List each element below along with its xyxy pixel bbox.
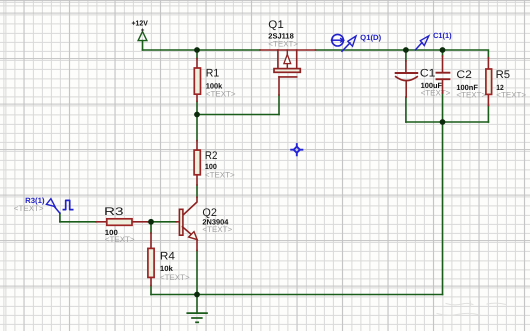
node R3/R4/base (148, 219, 154, 225)
svg-text:10k: 10k (160, 264, 174, 273)
svg-text:<TEXT>: <TEXT> (160, 273, 190, 282)
wire +12V rail (143, 49, 261, 51)
wire emitter to rail (196, 251, 198, 295)
wire R4 bottom stub (150, 286, 152, 295)
wire R5 bottom stub (487, 105, 489, 122)
transistor Q2 (2N3904 NPN) (176, 197, 197, 250)
node emitter/ground (194, 292, 200, 298)
wire R1-R2 vertical (196, 115, 198, 141)
svg-text:Q1(D): Q1(D) (360, 33, 381, 42)
capacitor C2 (437, 56, 450, 93)
svg-text:<TEXT>: <TEXT> (206, 90, 236, 99)
wire C2 bottom stub (442, 93, 444, 122)
wire R1 bottom stub (196, 101, 198, 114)
power +12V symbol (138, 29, 147, 50)
wire ground rail (151, 294, 443, 296)
svg-text:C2: C2 (456, 69, 472, 81)
ground (187, 313, 207, 322)
svg-text:R1: R1 (206, 68, 220, 80)
generator pulse symbol (63, 200, 72, 209)
wire capacitor bottom rail (406, 121, 489, 123)
svg-text:R5: R5 (496, 69, 511, 81)
svg-text:R4: R4 (160, 251, 175, 263)
svg-text:R3: R3 (104, 206, 124, 218)
resistor R4 (148, 233, 154, 286)
wire R2-Q2 collector (196, 185, 198, 197)
node drain/C1 (403, 47, 409, 53)
wire right down to ground rail (442, 122, 444, 295)
svg-text:Q1: Q1 (268, 19, 284, 31)
svg-text:<TEXT>: <TEXT> (456, 91, 486, 100)
wire input to R3 (60, 221, 96, 223)
wire gate net horizontal (197, 114, 279, 116)
wire R4 top stub (150, 222, 152, 233)
node +12V/R1 (194, 47, 200, 53)
svg-text:<TEXT>: <TEXT> (205, 170, 235, 179)
resistor R2 (194, 141, 200, 185)
svg-text:+12V: +12V (132, 19, 148, 28)
svg-text:<TEXT>: <TEXT> (421, 88, 451, 97)
origin marker (291, 144, 302, 155)
wire gate net vertical (278, 95, 280, 115)
resistor R3 (96, 219, 148, 226)
capacitor C1 (396, 61, 418, 97)
wire C2 top stub (442, 50, 444, 56)
voltage probe R3(1) (46, 199, 60, 214)
wire input vertical (59, 213, 61, 222)
wire C1 bottom stub (405, 97, 407, 122)
resistor R1 (194, 59, 200, 102)
resistor R5 (486, 58, 492, 106)
voltage probe C1(1) (415, 36, 429, 50)
svg-text:<TEXT>: <TEXT> (105, 235, 135, 244)
node junction dots (148, 47, 445, 297)
transistor Q1 (2SJ118 P-MOSFET) (260, 50, 316, 95)
node C-rail/down wire (440, 119, 446, 125)
svg-text:<TEXT>: <TEXT> (496, 91, 526, 100)
wire C1 top stub (405, 50, 407, 61)
node drain/C2 (440, 47, 446, 53)
svg-text:<TEXT>: <TEXT> (268, 40, 298, 49)
svg-text:<TEXT>: <TEXT> (14, 204, 44, 213)
wire R1 top stub (196, 50, 198, 59)
wire ground stub (196, 295, 198, 314)
svg-text:C1(1): C1(1) (433, 31, 452, 40)
svg-text:<TEXT>: <TEXT> (202, 225, 232, 234)
node R1/R2/gate (194, 112, 200, 118)
wire R3 to base (148, 221, 177, 223)
current probe Q1(D) (332, 34, 357, 51)
wire drain net (316, 50, 489, 58)
svg-text:R2: R2 (205, 150, 218, 162)
svg-text:C1: C1 (420, 68, 436, 80)
